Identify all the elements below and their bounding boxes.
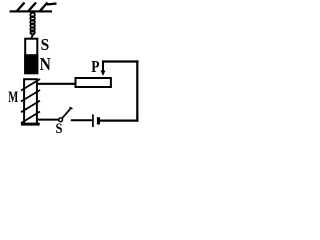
svg-text:S: S <box>56 120 63 137</box>
switch blade <box>62 108 70 118</box>
ceiling hatch 1 <box>17 3 25 12</box>
switch blade tip tick <box>70 107 73 109</box>
switch S pivot <box>59 118 63 122</box>
wire right vertical <box>136 60 138 121</box>
wire switch to battery <box>71 119 92 121</box>
spring <box>30 13 34 38</box>
coil winding hatch 4 <box>21 112 40 124</box>
svg-text:N: N <box>40 54 51 74</box>
battery short plate <box>97 117 100 124</box>
coil (solenoid) body <box>24 79 37 124</box>
magnet N pole (black) <box>24 54 38 74</box>
battery long plate <box>92 114 94 127</box>
coil winding hatch 2 <box>21 90 40 102</box>
wire coil to switch <box>37 119 59 121</box>
wire wiper to right <box>102 60 138 62</box>
coil winding hatch 3 <box>21 101 40 113</box>
wire battery to right corner <box>100 119 138 121</box>
coil bottom bar <box>21 123 40 126</box>
svg-text:M: M <box>8 89 18 106</box>
svg-text:S: S <box>41 35 50 54</box>
wire coil to rheostat <box>37 83 76 85</box>
rheostat wiper arrow <box>102 61 104 72</box>
coil winding hatch 1 <box>21 79 40 91</box>
ceiling hatch 3 <box>40 3 48 12</box>
ceiling hatch 2 <box>28 3 36 12</box>
svg-text:P: P <box>91 57 99 76</box>
rheostat P body <box>76 78 111 87</box>
ceiling support line <box>10 10 53 12</box>
magnet bar body <box>25 39 37 73</box>
ceiling hatch 4 (flat dash) <box>47 4 57 5</box>
